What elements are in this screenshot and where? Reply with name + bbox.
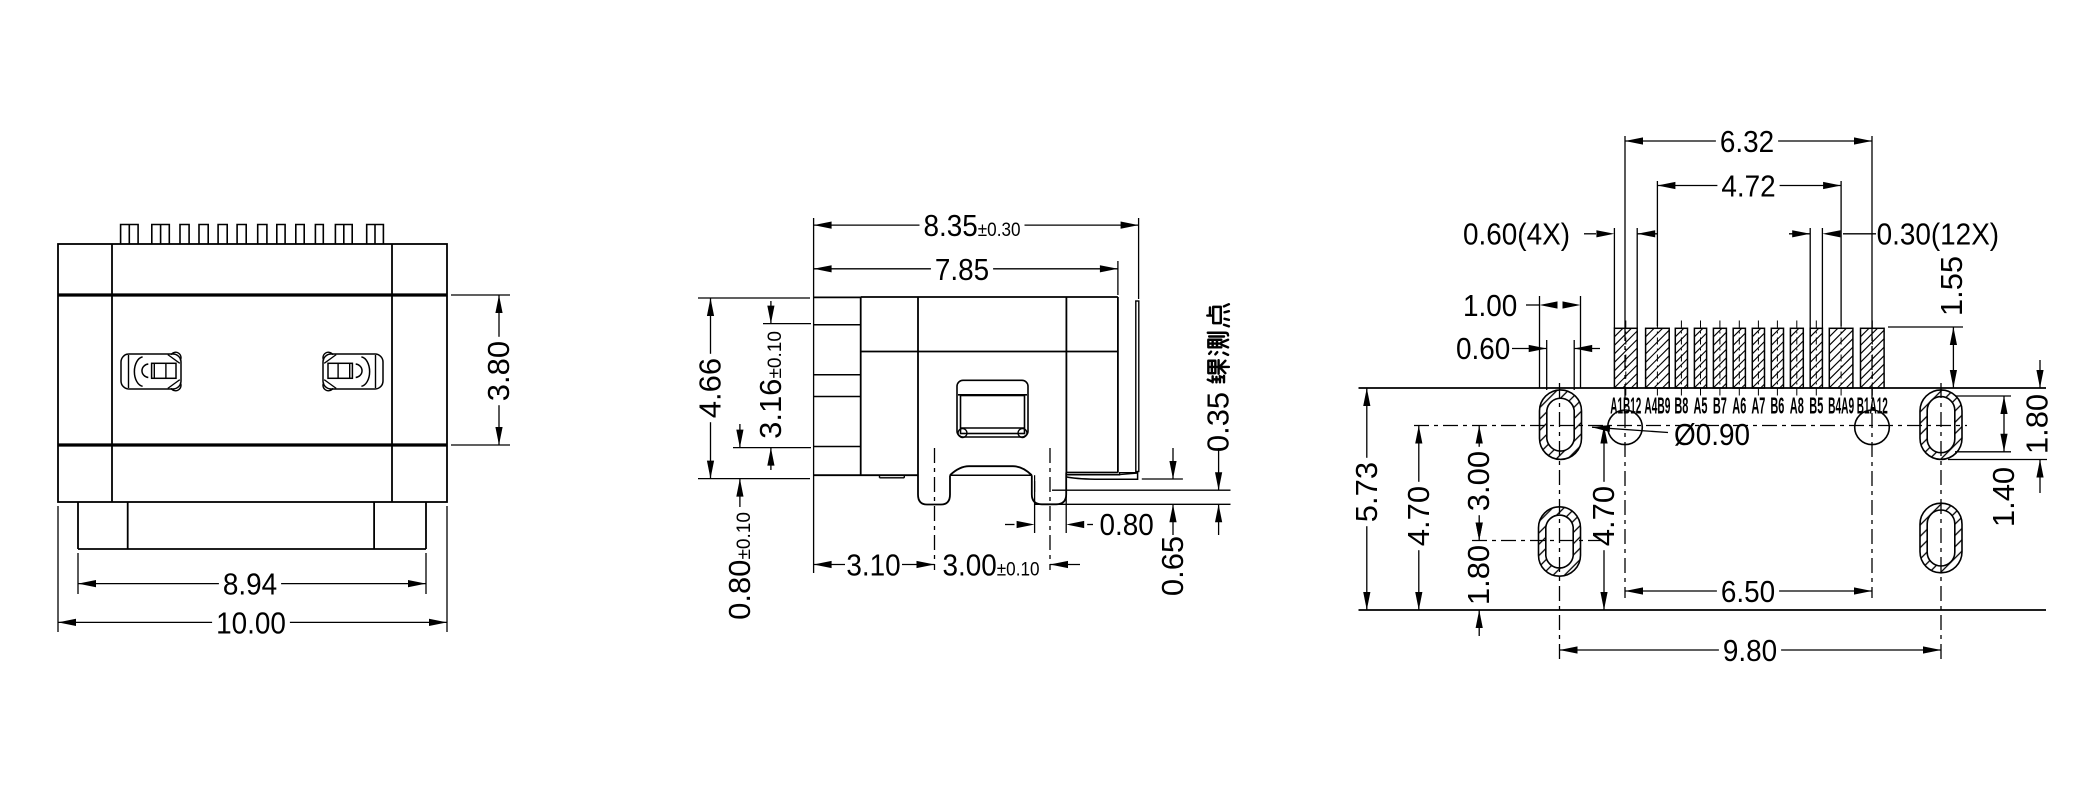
svg-text:4.72: 4.72 [1721,169,1775,204]
svg-text:±0.10: ±0.10 [765,331,786,378]
svg-text:5.73: 5.73 [1349,462,1384,522]
svg-text:4.70: 4.70 [1401,486,1436,546]
svg-text:7.85: 7.85 [935,252,989,287]
svg-text:3.00: 3.00 [1461,451,1496,511]
svg-text:A5: A5 [1694,393,1708,419]
svg-text:8.94: 8.94 [223,567,277,602]
svg-text:3.16: 3.16 [753,379,788,439]
svg-text:B6: B6 [1770,393,1784,419]
svg-text:1.80: 1.80 [1461,545,1496,605]
svg-text:6.32: 6.32 [1720,124,1774,159]
svg-text:4.70: 4.70 [1586,486,1621,546]
svg-text:6.50: 6.50 [1721,574,1775,609]
svg-text:3.80: 3.80 [481,341,516,401]
svg-text:A4B9: A4B9 [1644,393,1670,419]
svg-text:0.80: 0.80 [722,560,757,620]
svg-text:Ø0.90: Ø0.90 [1674,417,1750,452]
svg-text:B4A9: B4A9 [1828,393,1854,419]
svg-text:0.80: 0.80 [1099,507,1153,542]
svg-text:3.00: 3.00 [943,548,997,583]
svg-text:B8: B8 [1674,393,1688,419]
svg-text:B7: B7 [1713,393,1727,419]
svg-text:±0.10: ±0.10 [997,560,1040,581]
svg-text:±0.10: ±0.10 [734,512,755,559]
svg-text:0.30(12X): 0.30(12X) [1877,217,2000,252]
svg-text:0.60(4X): 0.60(4X) [1463,217,1570,252]
svg-text:4.66: 4.66 [693,358,728,418]
svg-text:1.55: 1.55 [1934,256,1969,316]
svg-text:3.10: 3.10 [846,548,900,583]
svg-text:10.00: 10.00 [216,605,286,640]
svg-text:A6: A6 [1732,393,1746,419]
svg-text:0.65: 0.65 [1155,536,1190,596]
svg-text:A7: A7 [1751,393,1765,419]
svg-text:1.00: 1.00 [1463,288,1517,323]
svg-text:±0.30: ±0.30 [978,220,1021,241]
svg-text:1.80: 1.80 [2020,394,2055,454]
svg-text:B5: B5 [1809,393,1823,419]
svg-text:8.35: 8.35 [924,208,978,243]
svg-text:0.60: 0.60 [1456,331,1510,366]
svg-text:A8: A8 [1790,393,1804,419]
svg-text:1.40: 1.40 [1986,467,2021,527]
svg-text:9.80: 9.80 [1723,633,1777,668]
svg-text:0.35: 0.35 [1201,392,1236,452]
